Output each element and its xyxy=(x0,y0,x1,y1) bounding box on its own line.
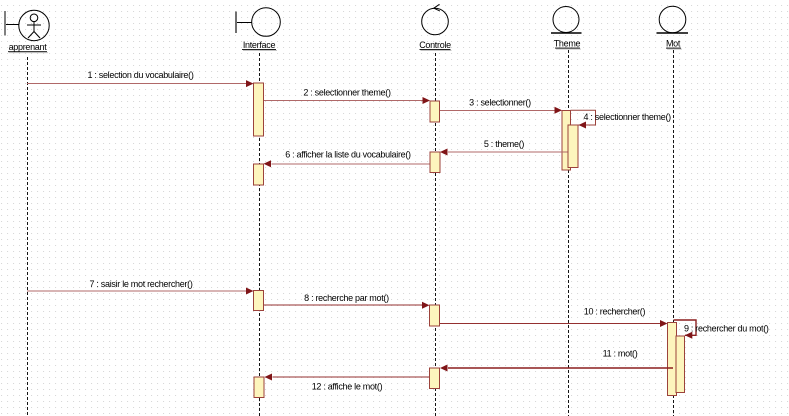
svg-text:5 : theme(): 5 : theme() xyxy=(484,139,525,149)
svg-text:2 : selectionner theme(): 2 : selectionner theme() xyxy=(303,88,391,98)
svg-text:6 : afficher la liste du vocab: 6 : afficher la liste du vocabulaire() xyxy=(285,150,411,160)
svg-text:4 : selectionner theme(): 4 : selectionner theme() xyxy=(584,112,672,122)
svg-text:3 : selectionner(): 3 : selectionner() xyxy=(469,98,531,108)
svg-text:8 : recherche par mot(): 8 : recherche par mot() xyxy=(304,293,389,303)
svg-text:11 : mot(): 11 : mot() xyxy=(603,349,638,359)
svg-text:9 : rechercher du mot(): 9 : rechercher du mot() xyxy=(684,324,769,334)
svg-text:10 : rechercher(): 10 : rechercher() xyxy=(584,307,646,317)
svg-text:12 : affiche le mot(): 12 : affiche le mot() xyxy=(312,382,383,392)
svg-text:Controle: Controle xyxy=(419,40,451,50)
svg-text:Interface: Interface xyxy=(243,40,276,50)
svg-text:Mot: Mot xyxy=(666,39,681,49)
svg-text:Theme: Theme xyxy=(554,39,581,49)
svg-text:apprenant: apprenant xyxy=(9,42,48,52)
svg-text:7 : saisir le mot rechercher(): 7 : saisir le mot rechercher() xyxy=(89,279,192,289)
svg-text:1 : selection du vocabulaire(): 1 : selection du vocabulaire() xyxy=(87,70,193,80)
